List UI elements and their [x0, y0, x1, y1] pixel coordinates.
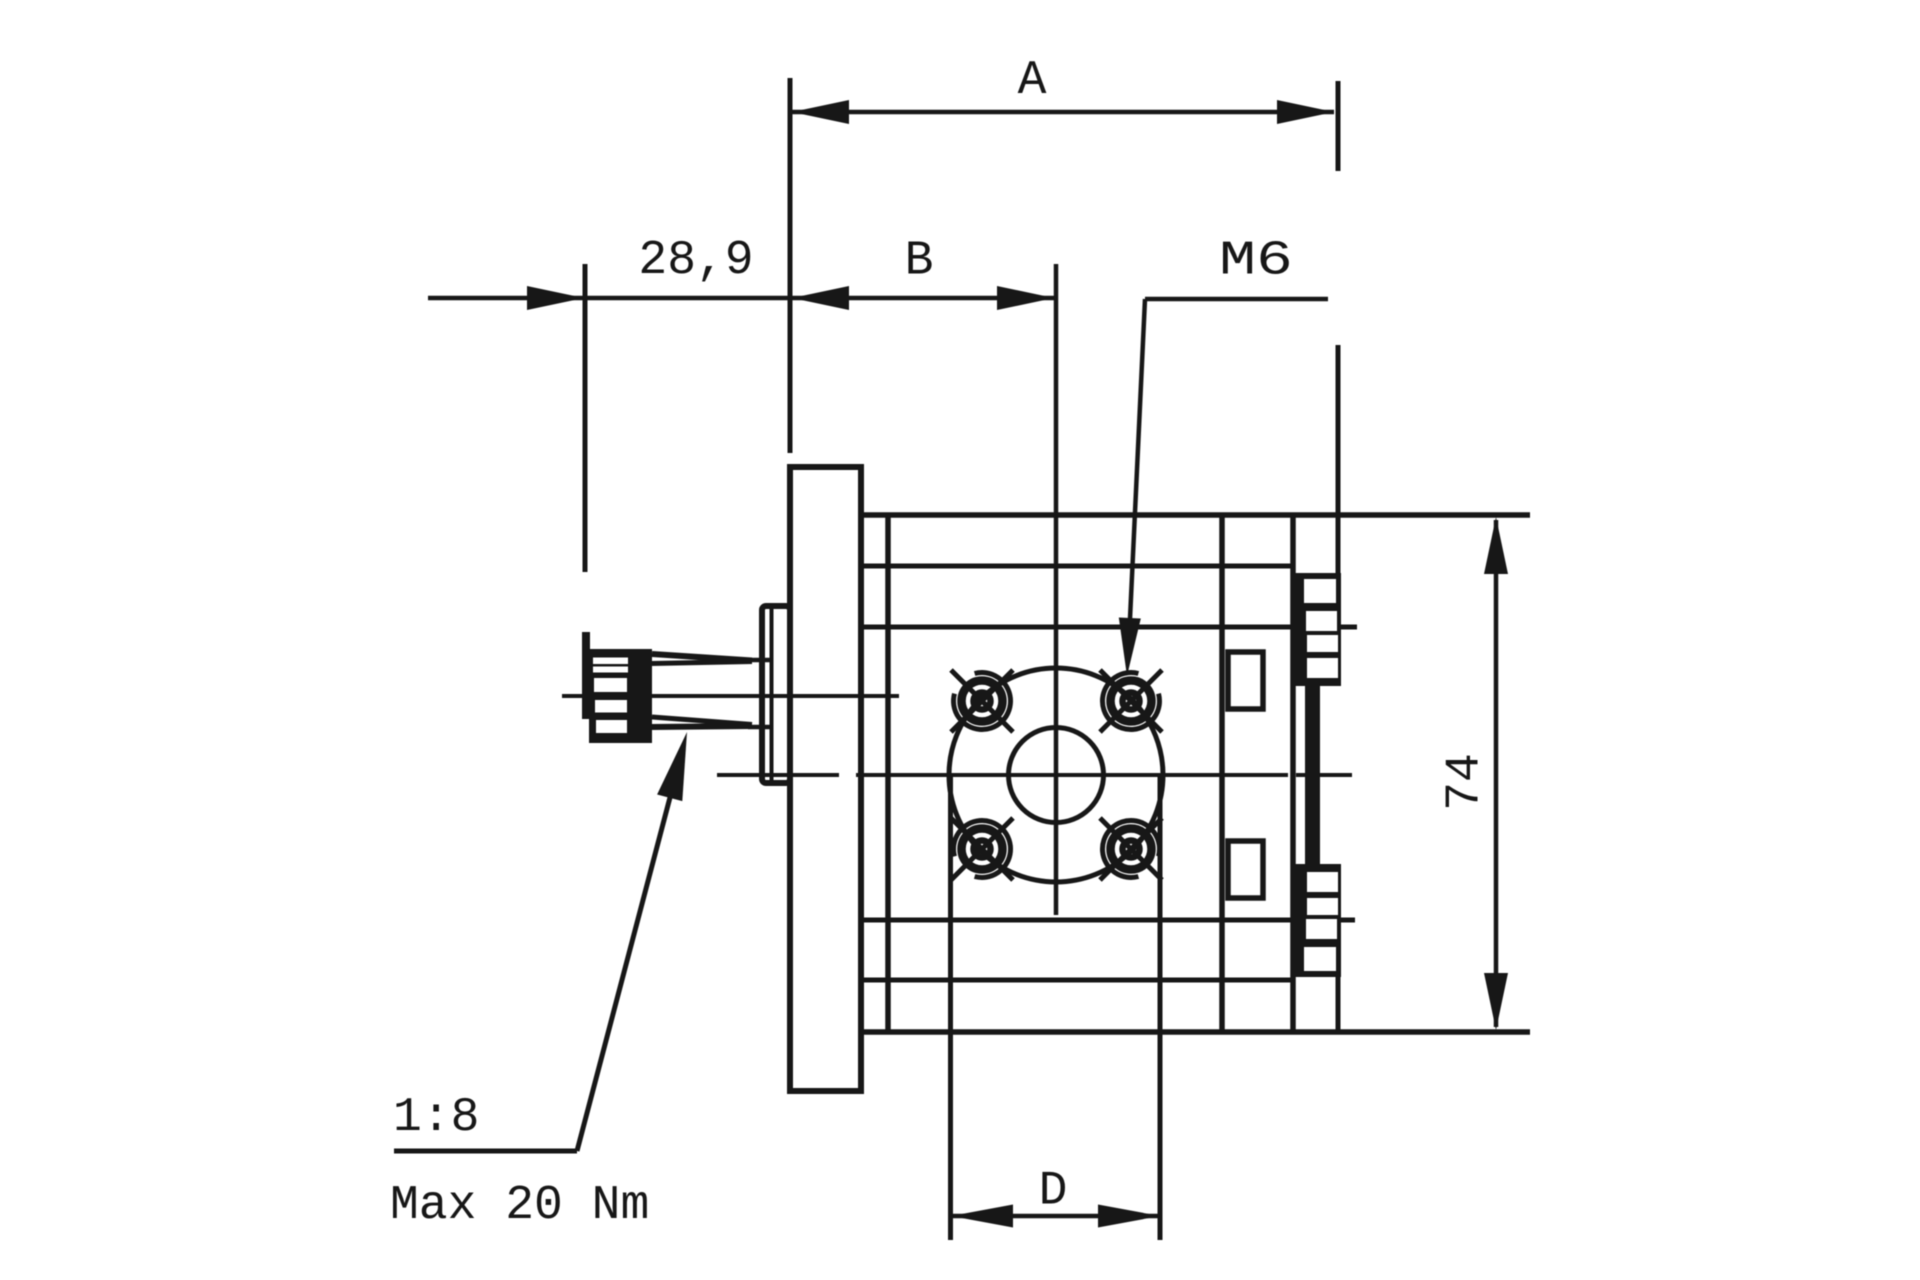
pump body bottom line [858, 1029, 1530, 1035]
svg-text:74: 74 [1439, 753, 1493, 811]
top port boss [1292, 573, 1341, 686]
dimension 74 line [1494, 520, 1499, 1027]
shaft bore circle [1009, 728, 1104, 823]
bottom boss window 4 [1307, 872, 1338, 892]
screw hole bottom-right [1100, 818, 1162, 880]
mounting flange plate [790, 467, 861, 1091]
shaft end nut left bar [582, 632, 590, 719]
nut slot 2 [593, 667, 628, 673]
M6 extension line segment [1336, 345, 1341, 573]
body internal line y627 [861, 625, 1357, 630]
top boss window 3 [1307, 635, 1338, 652]
bottom boss window 2 [1306, 919, 1337, 939]
rear cover square port top [1228, 652, 1263, 709]
dimension A line [792, 110, 1334, 115]
body internal line y566 [861, 564, 1293, 569]
screw hole top-right [1100, 670, 1162, 732]
body internal line y920 [861, 918, 1355, 923]
rear cover square port bottom [1228, 841, 1263, 898]
bolt circle [949, 668, 1163, 882]
svg-text:D: D [1039, 1165, 1068, 1219]
svg-text:1:8: 1:8 [393, 1091, 479, 1145]
dimension 28,9 and B shared line [428, 296, 1054, 301]
bottom boss window 3 [1307, 898, 1338, 915]
top boss window 1 [1304, 579, 1336, 603]
bearing hub outline [762, 606, 790, 783]
svg-text:Max 20 Nm: Max 20 Nm [390, 1179, 649, 1233]
shaft end nut body [589, 649, 652, 743]
dimension B arrowhead right-pointing [997, 286, 1054, 310]
nut slot 5 [596, 720, 627, 733]
shaft seat bottom line into hub [748, 725, 772, 730]
svg-text:A: A [1018, 54, 1047, 108]
top boss window 4 [1307, 658, 1338, 678]
boss lower ext vertical [1336, 977, 1341, 1032]
svg-text:28,9: 28,9 [638, 234, 753, 288]
svg-text:M6: M6 [1219, 233, 1293, 288]
nut slot 4 [595, 700, 627, 713]
shaft taper top line lower [652, 662, 752, 664]
dimension A extension line left [788, 78, 793, 453]
leader underline of 1:8 [394, 1149, 577, 1154]
dimension D arrowhead left [951, 1205, 1013, 1228]
rear cover left vertical [1219, 515, 1225, 1032]
dimension A arrowhead left [792, 100, 849, 124]
body internal line y980 [861, 978, 1293, 983]
shaft taper bottom line upper [652, 717, 752, 725]
dimension 28,9 arrowhead right-pointing [527, 286, 584, 310]
dimension A extension line right [1336, 81, 1341, 171]
bearing hub inner line [770, 609, 774, 780]
bottom boss window 1 [1304, 947, 1336, 971]
dimension 74 arrowhead down [1484, 973, 1508, 1030]
front view horizontal centerline seg1 [717, 773, 839, 777]
bottom port boss [1292, 864, 1341, 977]
nut slot 3 [594, 678, 627, 692]
M6 leader arrowhead [1119, 618, 1141, 677]
dimension D line [953, 1214, 1158, 1219]
dimension D arrowhead right [1098, 1205, 1160, 1228]
top boss window 2 [1306, 611, 1337, 631]
dimension 28,9 extension line [583, 264, 588, 572]
svg-text:B: B [905, 235, 934, 289]
M6 leader horizontal [1145, 297, 1328, 302]
screw hole bottom-left [951, 818, 1013, 880]
vertical centerline front view [1054, 264, 1059, 915]
pump body left edge [885, 515, 891, 1032]
shaft centerline [562, 694, 899, 698]
leader to taper (1:8) line [577, 786, 673, 1151]
shaft taper top line upper [652, 654, 752, 661]
shaft taper bottom line lower [652, 726, 752, 727]
nut slot 1 [593, 658, 628, 665]
rear cover right vertical [1290, 515, 1296, 1032]
M6 leader slant [1129, 299, 1145, 640]
dimension B arrowhead left-pointing [792, 286, 849, 310]
front view horizontal centerline seg2 [856, 773, 1288, 777]
pump body top line [861, 512, 1530, 518]
leader arrowhead to shaft taper [657, 732, 687, 801]
front view horizontal centerline seg3 [1296, 773, 1352, 777]
dimension A arrowhead right [1277, 100, 1334, 124]
gasket black bar between bosses [1305, 678, 1320, 872]
shaft seat top line into hub [748, 658, 772, 663]
front view square left side / D extension [948, 775, 953, 1240]
dimension 74 arrowhead up [1484, 517, 1508, 574]
screw hole top-left [951, 670, 1013, 732]
front view square right side / D extension [1158, 775, 1163, 1240]
